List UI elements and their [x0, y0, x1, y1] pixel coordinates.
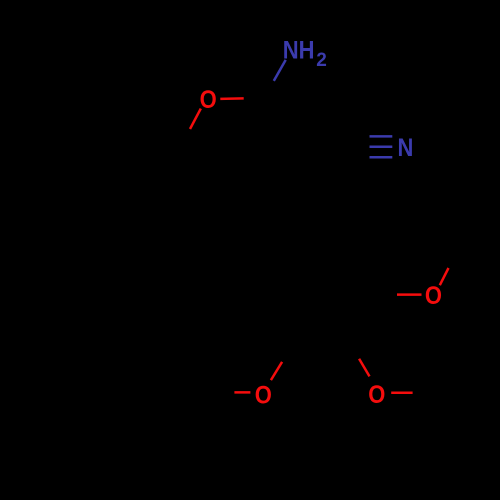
svg-text:O: O: [200, 86, 217, 114]
wire: bond O1-C2 red half: [220, 97, 243, 100]
svg-text:O: O: [425, 282, 442, 310]
wire: bond ringC-O(bottom-right) red half: [359, 359, 369, 377]
svg-text:O: O: [368, 381, 385, 409]
svg-text:O: O: [255, 381, 272, 409]
wire: bond O(bottom-left)-CH3 red half: [234, 391, 250, 394]
wire: bond O(bottom-right)-CH3 red half: [391, 392, 412, 395]
svg-text:2: 2: [316, 50, 327, 71]
wire: bond O(right)-CH3 red half: [440, 268, 449, 285]
wire: nitrile triple bond, upper line blue half: [370, 135, 393, 138]
wire: bond ringC-O(right) red half: [397, 293, 422, 296]
wire: nitrile triple bond, lower line blue half: [370, 156, 393, 159]
wire: bond ringC-O(bottom-left) red half: [271, 362, 282, 380]
svg-text:NH: NH: [283, 36, 315, 64]
wire: nitrile triple bond, middle line blue half: [370, 146, 393, 149]
svg-text:N: N: [398, 134, 414, 162]
wire: bond N(amino)-C2 blue half: [274, 60, 286, 81]
wire: bond O1-C8a red half: [190, 109, 201, 129]
